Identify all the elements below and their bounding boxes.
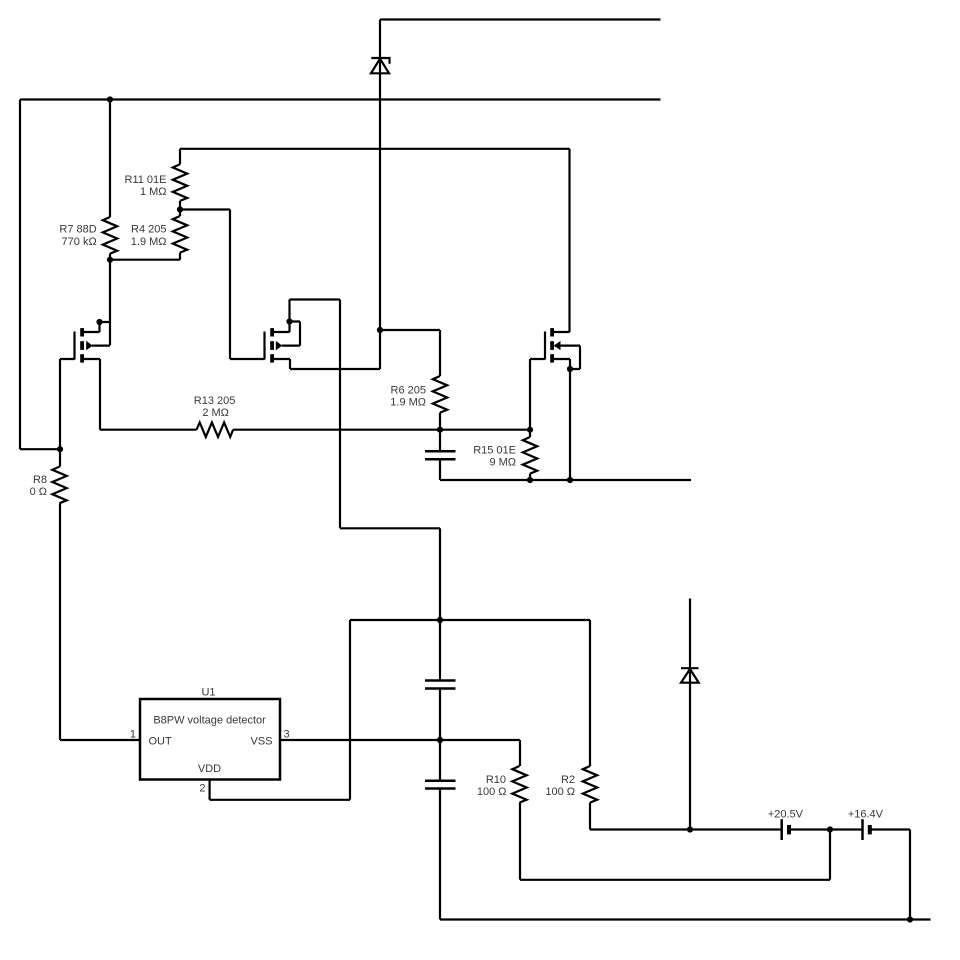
svg-text:+20.5V: +20.5V	[768, 808, 804, 820]
svg-text:2: 2	[199, 782, 205, 794]
svg-text:+16.4V: +16.4V	[848, 808, 884, 820]
svg-text:B8PW voltage detector: B8PW voltage detector	[153, 715, 266, 727]
svg-text:U1: U1	[201, 687, 215, 699]
svg-text:100 Ω: 100 Ω	[545, 786, 575, 798]
svg-text:R7 88D: R7 88D	[59, 224, 96, 236]
svg-text:3: 3	[284, 728, 290, 740]
svg-text:1.9 MΩ: 1.9 MΩ	[390, 397, 426, 409]
svg-text:R10: R10	[486, 774, 506, 786]
svg-text:R6 205: R6 205	[391, 385, 426, 397]
svg-text:770 kΩ: 770 kΩ	[62, 236, 97, 248]
svg-text:0 Ω: 0 Ω	[30, 486, 47, 498]
svg-text:R15 01E: R15 01E	[473, 445, 516, 457]
svg-text:OUT: OUT	[149, 735, 173, 747]
svg-text:R4 205: R4 205	[131, 224, 166, 236]
svg-text:1: 1	[130, 728, 136, 740]
svg-text:R13 205: R13 205	[194, 395, 236, 407]
svg-text:R2: R2	[561, 774, 575, 786]
svg-text:9 MΩ: 9 MΩ	[489, 456, 516, 468]
svg-text:R11 01E: R11 01E	[125, 174, 167, 186]
svg-text:R8: R8	[33, 474, 47, 486]
svg-text:2 MΩ: 2 MΩ	[202, 407, 229, 419]
svg-text:VSS: VSS	[250, 735, 272, 747]
svg-text:1 MΩ: 1 MΩ	[140, 186, 167, 198]
svg-text:1.9 MΩ: 1.9 MΩ	[131, 236, 167, 248]
svg-text:100 Ω: 100 Ω	[477, 786, 507, 798]
svg-text:VDD: VDD	[198, 763, 221, 775]
